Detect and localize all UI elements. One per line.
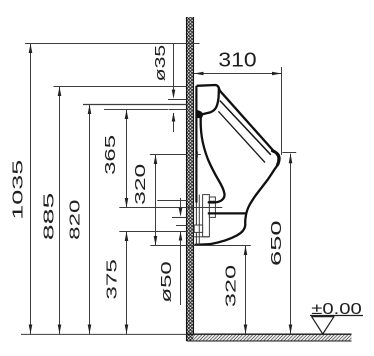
svg-text:885: 885: [41, 193, 57, 241]
svg-text:365: 365: [103, 135, 119, 175]
dimension 650: [269, 154, 292, 334]
rim hook thick mass: [273, 151, 279, 165]
drain pipe inner line: [176, 225, 187, 227]
dimension 320 lower: [224, 246, 248, 335]
urinal outer edge stroke: [195, 85, 280, 245]
drain step line: [209, 200, 215, 202]
dimension 1035: [11, 44, 33, 335]
drain vertical line: [198, 195, 200, 245]
floor: [187, 334, 352, 341]
urinal rim top cross-section (pentagon): [201, 88, 219, 114]
svg-text:310: 310: [218, 50, 256, 72]
dimension 320 upper: [133, 155, 157, 246]
dimension dia35: [153, 44, 175, 133]
drain outlet rect R1: [203, 195, 210, 237]
urinal back edge lower thin: [195, 203, 197, 245]
svg-text:820: 820: [68, 200, 84, 240]
dimension 885: [41, 87, 61, 335]
bowl underside shelf line: [208, 212, 247, 214]
floor extension line left: [21, 333, 187, 335]
dimension 310: [194, 50, 282, 76]
inlet spud knot: [196, 111, 202, 118]
extension line drain center: [119, 207, 222, 209]
svg-text:375: 375: [104, 259, 120, 300]
extension line 650 top tick: [282, 152, 296, 154]
level mark plus-minus 0.00: [310, 301, 363, 334]
extension line rim level left: [150, 154, 187, 156]
dimension 820: [68, 105, 92, 335]
extension line misc drain: [157, 200, 187, 202]
extension line 310 right: [281, 67, 283, 155]
inlet pipe bottom line: [169, 109, 187, 111]
bowl inner back curve: [201, 117, 225, 203]
extension line 375 top: [119, 231, 187, 233]
drain outlet rect R2: [209, 197, 215, 217]
drain gasket rect R3: [194, 225, 202, 232]
extension line 1035 top: [25, 43, 200, 45]
urinal back edge upper thick: [195, 86, 197, 203]
svg-text:ø50: ø50: [159, 261, 175, 302]
svg-text:650: 650: [269, 220, 285, 266]
svg-text:320: 320: [133, 164, 149, 205]
dimension dia50: [159, 198, 182, 305]
urinal body outline: [196, 85, 280, 245]
wall: [187, 17, 194, 341]
svg-text:1035: 1035: [11, 160, 27, 220]
svg-text:320: 320: [224, 265, 240, 308]
extension line skirt bottom: [150, 245, 251, 247]
plus mark on urinal back: [195, 152, 201, 158]
svg-text:ø35: ø35: [153, 45, 169, 82]
dimension 375: [104, 232, 128, 335]
extension line 885 top: [54, 86, 187, 88]
drain pipe top line: [172, 217, 187, 219]
extension line 365 top / inlet bottom: [104, 109, 168, 111]
inlet pipe top line: [168, 99, 187, 101]
extension line 820 / inlet center: [83, 104, 187, 106]
urinal rim third line: [218, 111, 265, 162]
urinal rim middle line: [220, 101, 271, 155]
drain bottom line: [194, 236, 209, 238]
dimension 365: [103, 110, 128, 208]
